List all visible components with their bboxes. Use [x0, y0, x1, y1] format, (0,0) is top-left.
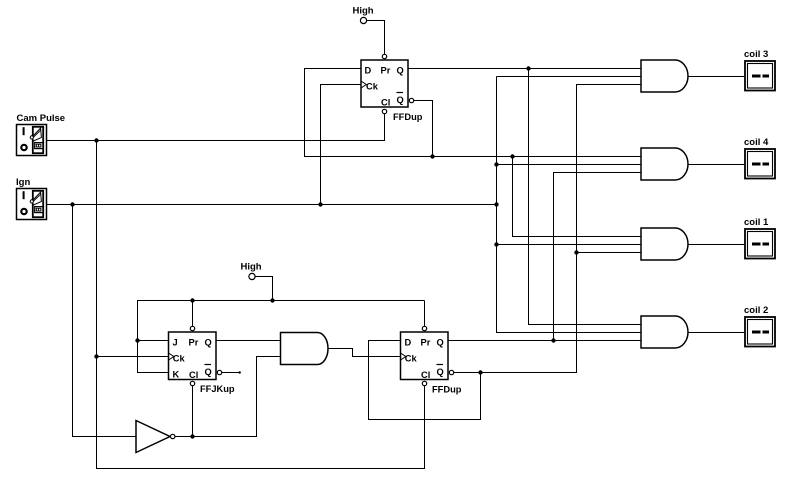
svg-text:Ck: Ck	[366, 82, 379, 92]
junction col96/JK Ck	[94, 354, 98, 358]
junction Qbar/D row	[430, 154, 434, 158]
and-gate G1 (coil 1)	[641, 228, 688, 260]
wire FF2 Q to coil2 AND input3	[448, 340, 641, 342]
junction col496/coil4 in2	[494, 162, 498, 166]
wire inverter output to AND input2	[175, 357, 280, 437]
svg-text:J: J	[173, 338, 178, 348]
junction preset/JK Pr	[190, 298, 194, 302]
wire JK Cl stem to inverter output	[192, 386, 194, 437]
junction Ign/col496	[494, 202, 498, 206]
wire col72 Ign down to inverter input	[73, 205, 137, 437]
svg-text:coil 2: coil 2	[744, 305, 768, 316]
junction Ign/col72	[70, 202, 74, 206]
wire coil4 AND input2	[497, 164, 642, 166]
wire col528 FF1 Q down to coil2 AND input1	[529, 69, 642, 325]
junction FF2 Q/col553	[551, 338, 555, 342]
junction FF2 Qbar/D loop	[478, 370, 482, 374]
svg-text:Q: Q	[397, 66, 404, 76]
flip-flop U2 FFJKup (JK flip-flop)	[169, 326, 222, 385]
svg-text:Cl: Cl	[421, 370, 430, 380]
svg-text:coil 4: coil 4	[744, 137, 769, 148]
wire G4 output to coil4	[688, 164, 744, 166]
wire coil1 AND input3	[577, 252, 642, 254]
terminal High top	[353, 6, 374, 24]
wire preset line J/K/Pr/Pr2	[138, 301, 425, 373]
svg-text:Q: Q	[205, 367, 212, 377]
wire FF1 D feedback loop to coil4 AND input1	[305, 69, 642, 157]
wire FF2 Pr stem	[424, 301, 426, 327]
wire High2 to preset line	[255, 277, 272, 301]
wire FF2 D feedback from Qbar	[369, 341, 481, 420]
svg-text:Ck: Ck	[405, 354, 418, 364]
svg-text:D: D	[365, 66, 372, 76]
inverter U3	[136, 421, 175, 453]
wire JK Ck from col96	[97, 356, 169, 358]
junction col496/coil1 in2	[494, 242, 498, 246]
junction FF1 Q/col528	[526, 66, 530, 70]
svg-text:Ign: Ign	[16, 177, 30, 188]
junction col576/coil1 in3	[574, 250, 578, 254]
junction inverter out/JK Cl	[190, 434, 194, 438]
svg-text:FFJKup: FFJKup	[200, 384, 235, 394]
and-gate U4 (middle 2-input)	[281, 333, 329, 365]
and-gate G2 (coil 2)	[641, 316, 688, 348]
wire col96 Cam down to bottom, right, up to FF2 Cl	[97, 141, 425, 469]
wire U4 output to FF2 Ck	[328, 349, 401, 357]
svg-text:coil 3: coil 3	[744, 49, 768, 60]
svg-text:Pr: Pr	[189, 338, 199, 348]
terminal High bottom	[241, 262, 262, 280]
svg-text:coil 1: coil 1	[744, 217, 769, 228]
svg-text:Cam Pulse: Cam Pulse	[17, 113, 66, 124]
svg-text:Q: Q	[437, 338, 444, 348]
wire JK Q to AND input1	[216, 340, 281, 342]
wire FF2 Qbar to col576	[454, 85, 641, 373]
svg-text:Pr: Pr	[381, 66, 391, 76]
svg-text:High: High	[241, 262, 262, 273]
junction col137/J row	[135, 338, 139, 342]
wire FF1 Q to coil3 AND input1	[408, 68, 641, 70]
junction Ign/FF1 Ck col	[318, 202, 322, 206]
wire Ign output to col496	[47, 204, 497, 206]
wire col553 up to coil4 AND input3	[554, 173, 642, 341]
svg-text:K: K	[173, 370, 180, 380]
wire col496 Ign bus coil3 in2 to coil2 in2	[497, 77, 642, 333]
wire Cam Pulse output to FF1 Cl	[47, 114, 385, 141]
svg-text:Ck: Ck	[173, 354, 186, 364]
svg-text:Q: Q	[205, 338, 212, 348]
wire G2 output to coil2	[688, 332, 744, 334]
wire FF1 Ck from Ign	[321, 85, 362, 205]
flip-flop U1 FFDup (top D flip-flop)	[361, 54, 414, 113]
switch S1 Cam Pulse	[17, 125, 47, 156]
wire High to FF1 Pr	[367, 21, 385, 55]
svg-text:Pr: Pr	[421, 338, 431, 348]
wire JK J input	[138, 340, 169, 342]
svg-text:High: High	[353, 6, 374, 17]
svg-text:FFDup: FFDup	[432, 385, 462, 395]
indicator coil 4	[745, 149, 775, 179]
svg-text:Q: Q	[437, 367, 444, 377]
and-gate G3 (coil 3)	[641, 60, 688, 92]
wire JK Pr stem	[192, 301, 194, 327]
wire G1 output to coil1	[688, 244, 744, 246]
indicator coil 2	[745, 317, 775, 347]
junction High2/preset line	[270, 298, 274, 302]
pin stub end dot	[239, 371, 241, 373]
wire coil1 AND input2	[497, 244, 642, 246]
svg-text:Cl: Cl	[381, 98, 390, 108]
svg-text:FFDup: FFDup	[393, 112, 423, 122]
wire G3 output to coil3	[688, 76, 744, 78]
junction Cam/col96	[94, 138, 98, 142]
wire JK Qbar stub	[222, 372, 239, 374]
indicator coil 3	[745, 61, 775, 91]
wire col513 D row down to coil1 AND input1	[513, 157, 642, 237]
svg-text:D: D	[405, 338, 412, 348]
svg-text:Q: Q	[397, 95, 404, 105]
wire col496 top branch coil3 AND input2	[497, 76, 642, 78]
and-gate G4 (coil 4)	[641, 148, 688, 180]
junction D row/col513	[510, 154, 514, 158]
wire FF1 Qbar down to D row	[414, 101, 433, 157]
indicator coil 1	[745, 229, 775, 259]
switch S2 Ign	[17, 189, 47, 220]
flip-flop U5 FFDup (bottom D flip-flop)	[401, 326, 454, 385]
svg-text:Cl: Cl	[189, 370, 198, 380]
